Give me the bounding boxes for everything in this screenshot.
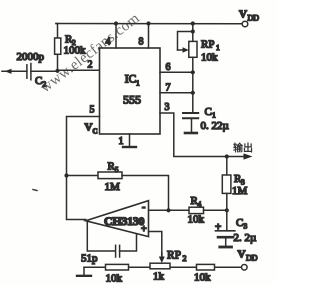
svg-text:C: C — [205, 106, 212, 118]
wire pin 3 — [160, 113, 227, 157]
capacitor C3 — [226, 210, 228, 231]
potentiometer RP2 — [150, 263, 170, 269]
capacitor C1 — [183, 112, 198, 114]
wire pin 5 / VC — [67, 117, 100, 220]
wire pin 6 — [160, 71, 193, 73]
svg-text:7: 7 — [166, 83, 171, 94]
svg-text:4: 4 — [106, 37, 111, 48]
svg-text:V: V — [239, 9, 247, 21]
svg-text:RP: RP — [167, 250, 181, 262]
svg-text:1: 1 — [119, 136, 124, 147]
svg-text:C: C — [236, 217, 243, 229]
svg-text:2: 2 — [43, 80, 47, 89]
terminal VDD top — [242, 21, 248, 27]
op-amp U1 CH3130 — [86, 201, 149, 237]
wire bottom rail — [84, 266, 106, 268]
svg-text:5: 5 — [90, 105, 95, 116]
svg-text:输出: 输出 — [233, 142, 253, 155]
svg-text:CH3130: CH3130 — [104, 214, 145, 228]
wire inverting input / R4 — [149, 209, 190, 211]
svg-text:V: V — [238, 249, 246, 261]
ground C1 — [185, 132, 197, 135]
svg-text:51p: 51p — [81, 253, 98, 265]
wire pin 7 — [160, 92, 193, 94]
svg-text:2. 2µ: 2. 2µ — [234, 232, 257, 244]
resistor 10k right — [197, 264, 215, 270]
wire pin 8 — [148, 24, 150, 49]
svg-text:1k: 1k — [153, 271, 165, 283]
input wire with arrow — [2, 70, 27, 72]
svg-text:10k: 10k — [201, 52, 218, 64]
svg-text:2: 2 — [88, 60, 93, 71]
svg-text:6: 6 — [166, 62, 171, 73]
svg-text:10k: 10k — [188, 214, 205, 226]
svg-text:3: 3 — [165, 102, 170, 113]
potentiometer RP1 — [192, 24, 194, 42]
ground pin 1 — [129, 134, 131, 147]
svg-text:2: 2 — [183, 254, 187, 263]
svg-text:+: + — [141, 224, 147, 235]
wire top rail — [56, 23, 242, 25]
artifact dash — [33, 190, 37, 191]
svg-text:DD: DD — [248, 14, 260, 23]
ground bottom left — [83, 267, 85, 275]
output wire and arrow — [227, 156, 244, 158]
svg-text:2000p: 2000p — [17, 51, 45, 63]
wire pin 4 — [115, 24, 117, 49]
svg-text:DD: DD — [246, 254, 258, 263]
svg-text:IC: IC — [125, 74, 137, 86]
svg-text:3: 3 — [244, 222, 248, 231]
resistor 10k left — [106, 264, 129, 270]
resistor R3 — [226, 157, 228, 176]
svg-text:8: 8 — [139, 37, 144, 48]
ground C3 — [220, 246, 232, 249]
resistor R5 — [67, 175, 99, 177]
svg-text:1: 1 — [212, 111, 216, 120]
wire pin 2 — [58, 69, 100, 71]
svg-text:4: 4 — [198, 200, 202, 209]
node pin2 junction — [55, 69, 59, 73]
svg-text:1: 1 — [136, 79, 140, 88]
wire non-inverting stub — [149, 232, 162, 260]
terminal VDD bottom — [242, 265, 248, 271]
svg-text:10k: 10k — [106, 273, 123, 285]
svg-text:V: V — [85, 122, 93, 134]
svg-text:1M: 1M — [105, 181, 121, 193]
svg-text:+: + — [215, 221, 221, 233]
svg-text:C: C — [35, 75, 42, 87]
svg-text:100k: 100k — [64, 45, 87, 57]
svg-text:RP: RP — [201, 39, 214, 51]
svg-text:0. 22µ: 0. 22µ — [201, 120, 229, 132]
svg-text:5: 5 — [115, 165, 119, 174]
svg-text:10k: 10k — [194, 272, 211, 284]
resistor R2 — [56, 24, 58, 39]
capacitor C2 — [26, 65, 28, 78]
capacitor 51p feedback loop — [87, 222, 115, 251]
op IC1 555 box — [100, 48, 161, 134]
svg-text:555: 555 — [123, 93, 141, 107]
svg-text:1M: 1M — [232, 185, 248, 197]
svg-text:-: - — [142, 202, 145, 213]
node R5 tap — [64, 173, 68, 177]
svg-text:C: C — [93, 128, 98, 136]
